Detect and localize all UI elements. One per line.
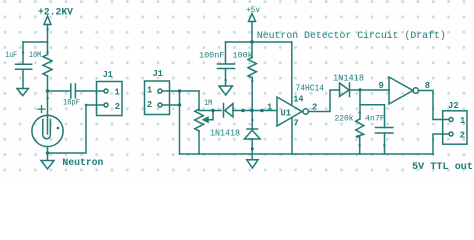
capacitor 1uF xyxy=(16,64,32,69)
wire xyxy=(198,91,200,109)
power arrow +2.2KV xyxy=(44,16,51,25)
svg-text:5V TTL out: 5V TTL out xyxy=(412,162,473,173)
svg-text:+2.2KV: +2.2KV xyxy=(38,8,73,19)
neutron tube xyxy=(32,115,63,146)
svg-text:1: 1 xyxy=(460,116,465,126)
svg-text:9: 9 xyxy=(379,81,384,91)
pin 1 xyxy=(104,89,108,93)
node junction xyxy=(46,151,49,154)
svg-text:1: 1 xyxy=(147,86,152,96)
node junction xyxy=(241,109,244,112)
node junction xyxy=(251,147,254,150)
wire xyxy=(359,90,361,119)
wire xyxy=(433,134,449,154)
output wire pin2 xyxy=(308,90,339,112)
ground xyxy=(247,160,258,168)
svg-text:14: 14 xyxy=(293,95,304,105)
connector J1 (input) xyxy=(145,81,170,115)
node junction xyxy=(358,88,361,91)
wire xyxy=(225,42,227,64)
pin 2 xyxy=(104,103,108,107)
resistor 10M xyxy=(43,55,52,77)
wire xyxy=(47,147,49,160)
pin 7 wire xyxy=(291,119,293,155)
pin 2 xyxy=(449,132,453,136)
power arrow +5v xyxy=(249,14,256,22)
svg-text:1N1418: 1N1418 xyxy=(333,73,364,84)
diode D2 1N1418 (shunt, cathode up) xyxy=(251,111,253,130)
svg-text:10M: 10M xyxy=(29,51,41,60)
wire xyxy=(47,25,49,55)
pin 1 xyxy=(449,118,453,122)
node junction xyxy=(46,89,49,92)
capacitor 4n7F xyxy=(376,128,394,134)
ground xyxy=(17,89,28,96)
wire xyxy=(198,131,200,154)
wire xyxy=(360,105,385,128)
svg-text:1: 1 xyxy=(115,87,120,97)
wire xyxy=(199,110,221,112)
wire xyxy=(47,76,49,116)
capacitor 10pF xyxy=(71,84,76,98)
resistor 220k xyxy=(356,119,364,137)
tube cathode xyxy=(43,120,51,139)
diode D3 1N1418 (anode left) xyxy=(340,83,350,97)
node junction xyxy=(178,103,181,106)
wire xyxy=(251,139,253,160)
svg-text:1uF: 1uF xyxy=(5,51,17,60)
svg-text:100k: 100k xyxy=(233,51,253,61)
wire xyxy=(22,42,24,64)
wire xyxy=(350,89,390,91)
ground rail xyxy=(180,153,434,155)
wire xyxy=(23,41,48,43)
svg-text:J2: J2 xyxy=(448,101,459,111)
connector J1 (detector) xyxy=(97,82,123,116)
svg-text:J1: J1 xyxy=(153,69,163,79)
wire xyxy=(384,133,386,154)
ground xyxy=(219,86,233,95)
wire xyxy=(251,22,253,58)
tube dot xyxy=(57,127,60,130)
svg-text:+5v: +5v xyxy=(246,6,260,15)
tube anode wire xyxy=(47,116,49,135)
node junction xyxy=(250,109,253,112)
svg-text:2: 2 xyxy=(460,131,465,141)
svg-text:Neutron: Neutron xyxy=(62,158,103,169)
capacitor 100nF xyxy=(218,64,235,69)
stray grid blobs on wires xyxy=(22,28,386,147)
pot wiper xyxy=(208,111,214,120)
wire xyxy=(48,90,71,92)
svg-text:U1: U1 xyxy=(281,109,292,119)
wire xyxy=(359,137,361,154)
svg-text:1M: 1M xyxy=(204,99,212,108)
label + xyxy=(38,106,45,113)
potentiometer 1M xyxy=(195,109,204,131)
svg-text:8: 8 xyxy=(425,81,430,91)
svg-text:10pF: 10pF xyxy=(63,99,80,108)
svg-text:2: 2 xyxy=(147,100,152,110)
svg-text:J1: J1 xyxy=(103,70,113,80)
wire xyxy=(162,104,180,106)
node junction xyxy=(178,89,181,92)
svg-text:74HC14: 74HC14 xyxy=(296,83,325,94)
pin 14 wire xyxy=(291,42,293,104)
wire xyxy=(233,110,277,112)
svg-text:2: 2 xyxy=(115,102,120,112)
svg-text:Neutron Detector Circuit (Draf: Neutron Detector Circuit (Draft) xyxy=(257,30,446,41)
node junction xyxy=(211,109,214,112)
wire xyxy=(251,78,253,111)
resistor 100k xyxy=(248,58,256,78)
wire xyxy=(75,90,104,92)
svg-text:220k: 220k xyxy=(335,114,354,124)
node junction xyxy=(250,40,253,43)
ground xyxy=(41,161,54,169)
wire xyxy=(22,69,24,88)
inverter U1B xyxy=(389,77,413,104)
wire xyxy=(162,90,199,92)
svg-text:1: 1 xyxy=(267,103,272,113)
wire xyxy=(179,91,181,154)
wire xyxy=(226,41,292,43)
wire xyxy=(225,69,227,87)
diode D1 1N1418 (series, cathode left) xyxy=(223,104,225,118)
svg-text:7: 7 xyxy=(294,119,299,129)
connector J2 xyxy=(443,111,467,144)
output wire pin8 xyxy=(418,91,449,120)
wire xyxy=(48,105,105,153)
svg-text:1N1418: 1N1418 xyxy=(210,128,240,139)
svg-text:4n7F: 4n7F xyxy=(365,115,385,124)
svg-text:100nF: 100nF xyxy=(199,52,224,61)
node junction xyxy=(260,109,263,112)
inverter U1A 74HC14 xyxy=(277,97,302,126)
